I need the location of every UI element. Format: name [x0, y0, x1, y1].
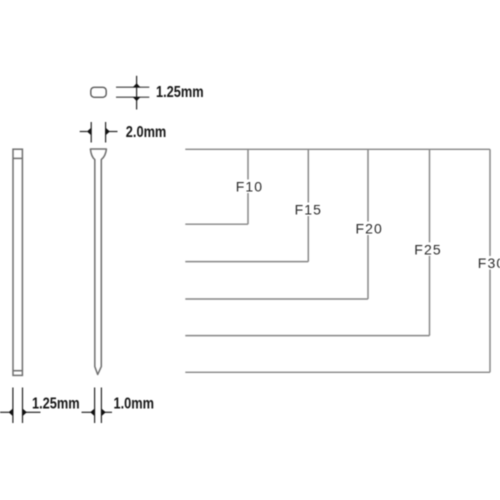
- dim 1.25mm bottom: left extension line: [12, 388, 14, 424]
- length brackets: top line: [185, 148, 490, 150]
- dim 2.0mm: right tick: [105, 122, 107, 143]
- dim 1.0mm bottom: right arrow: [102, 409, 106, 416]
- F20 bracket vertical: [367, 149, 369, 299]
- svg-text:F10: F10: [236, 179, 263, 195]
- svg-text:1.0mm: 1.0mm: [114, 395, 155, 413]
- dim 1.25mm top: upper arrow: [133, 83, 141, 87]
- dim 1.25mm bottom: right line: [26, 411, 40, 413]
- dim 1.0mm bottom: left line: [82, 411, 91, 413]
- dim 1.0mm bottom: right extension line: [100, 388, 102, 424]
- F30 label: [478, 256, 500, 270]
- F30 bracket vertical: [489, 149, 491, 372]
- dim 2.0mm: right arrow: [106, 128, 110, 135]
- dim 1.25mm bottom: right extension line: [22, 388, 24, 424]
- F10 label: [236, 180, 264, 194]
- pin side view tip line: [13, 370, 22, 372]
- dim 1.25mm top: vertical dimension line: [136, 76, 138, 110]
- dim 1.0mm bottom: right line: [105, 411, 112, 413]
- dim 1.25mm top: extension line upper: [116, 86, 149, 88]
- dim 2.0mm: left arrow: [87, 128, 91, 135]
- dim 1.25mm top: extension line lower: [116, 96, 149, 98]
- F25 label: [414, 242, 442, 256]
- dim 1.0mm bottom: left extension line: [94, 388, 96, 424]
- dim 1.25mm bottom: right arrow: [23, 409, 27, 416]
- finish nail front view (head + shank + point): [90, 149, 106, 375]
- F30 bracket bottom: [185, 371, 490, 373]
- pin side view head line: [13, 157, 22, 159]
- F15 bracket bottom: [185, 261, 308, 263]
- F10 bracket vertical: [247, 149, 249, 224]
- svg-text:F20: F20: [356, 221, 383, 237]
- F20 label: [355, 222, 383, 236]
- dim 1.25mm bottom: left line: [0, 411, 9, 413]
- dim 2.0mm: left tick: [90, 122, 92, 143]
- svg-text:1.25mm: 1.25mm: [156, 84, 204, 102]
- svg-text:F25: F25: [414, 241, 441, 257]
- dim 2.0mm: left line: [80, 131, 88, 133]
- F10 bracket bottom: [185, 223, 248, 225]
- dim 2.0mm: right line: [110, 131, 118, 133]
- pin side view body: [13, 149, 22, 375]
- dim 1.25mm bottom: left arrow: [9, 409, 13, 416]
- F15 label: [295, 203, 323, 217]
- F20 bracket bottom: [185, 298, 368, 300]
- svg-text:F15: F15: [295, 202, 322, 218]
- svg-text:F30: F30: [478, 255, 500, 271]
- dim 1.0mm bottom: left arrow: [90, 409, 94, 416]
- F15 bracket vertical: [307, 149, 309, 261]
- svg-text:1.25mm: 1.25mm: [32, 395, 80, 413]
- svg-text:2.0mm: 2.0mm: [126, 124, 167, 142]
- head cross-section pill: [91, 87, 106, 97]
- F25 bracket bottom: [185, 335, 429, 337]
- dim 1.25mm top: lower arrow: [133, 97, 141, 101]
- F25 bracket vertical: [429, 149, 431, 335]
